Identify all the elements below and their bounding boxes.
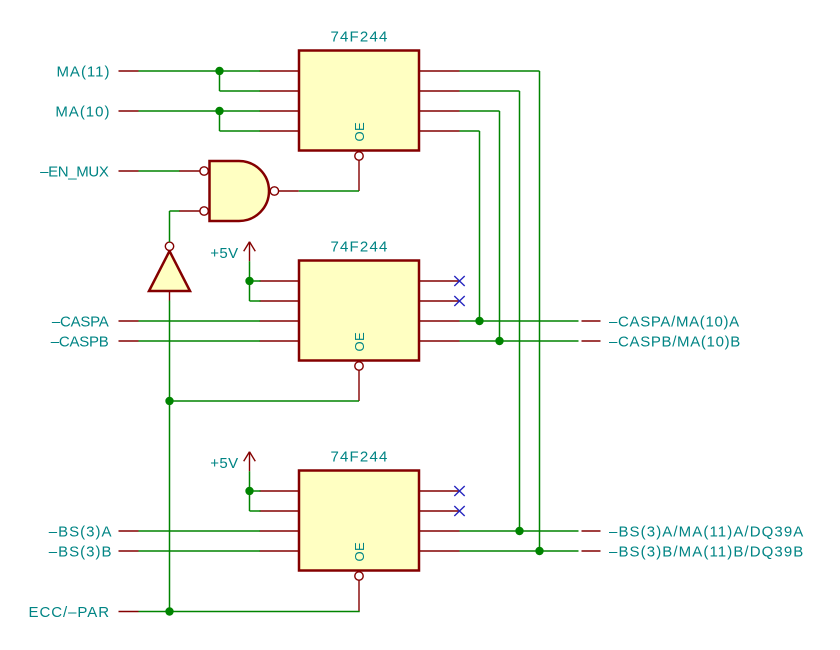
svg-text:74F244: 74F244 (330, 29, 388, 46)
label stub for -CASPA/MA(10)A (582, 320, 601, 322)
wire -CASPA to IC U2 pin3 (139, 320, 261, 322)
wire IC U1 pin7 horizontal (460, 110, 500, 112)
label stub for -CASPB/MA(10)B (582, 340, 601, 342)
wire +5V #1 down to junction (249, 261, 251, 281)
IC U3 right pin 5 (419, 490, 460, 492)
IC U2 right pin 5 (419, 280, 460, 282)
buffer IC U3 74F244 body (299, 471, 419, 571)
junction MA(11) node (215, 67, 223, 75)
label stub for MA(10) (119, 110, 139, 112)
wire -CASPB/MA(10)B output (460, 340, 579, 342)
wire +5V #2 node down (249, 491, 251, 511)
IC U3 OE pin inverting bubble (355, 572, 363, 580)
IC U3 left pin 4 (260, 550, 300, 552)
IC U1 left pin 4 (260, 130, 300, 132)
IC U3 OE pin stub (358, 580, 360, 611)
nand U4 input B pin stub (179, 210, 200, 212)
wire +5V node to IC U2 pin1 (250, 280, 261, 282)
IC U1 right pin 6 (419, 90, 460, 92)
junction +5V #1 node (245, 277, 253, 285)
IC U3 right pin 7 (419, 530, 460, 532)
svg-text:MA(11): MA(11) (56, 64, 110, 81)
label stub for -CASPB (119, 340, 139, 342)
no-connect X on IC U2 pin5 (454, 276, 464, 286)
label stub for -BS(3)A/MA(11)A/DQ39A (582, 530, 601, 532)
svg-text:OE: OE (352, 542, 367, 562)
junction -CASPB/MA(10)B node (495, 337, 503, 345)
junction inverter bus / U2 OE (165, 397, 173, 405)
wire -BS(3)A/MA(11)A/DQ39A output (460, 530, 579, 532)
svg-text:+5V: +5V (210, 455, 238, 472)
wire nand output to IC U1 OE (299, 190, 359, 192)
label stub for -BS(3)B (119, 550, 139, 552)
IC U3 left pin 2 (260, 510, 300, 512)
wire ECC/-PAR to IC U3 OE (139, 611, 360, 613)
wire MA(10) branch to IC U1 pin4 (220, 130, 261, 132)
IC U1 OE pin inverting bubble (355, 152, 363, 160)
IC U1 OE pin stub (358, 160, 360, 191)
wire +5V node down (249, 281, 251, 301)
junction MA(10) node (215, 107, 223, 115)
wire IC U1 pin8 vertical to -CASPA net (479, 131, 481, 321)
+5V power symbol #1 arrow (244, 242, 256, 261)
svg-text:–CASPB: –CASPB (51, 334, 109, 351)
label stub for -EN_MUX (119, 170, 139, 172)
label stub for ECC/-PAR (119, 611, 139, 613)
IC U2 OE pin inverting bubble (355, 362, 363, 370)
svg-text:–CASPA: –CASPA (52, 314, 109, 331)
wire IC U2 OE horizontal (170, 400, 360, 402)
svg-text:74F244: 74F244 (330, 239, 388, 256)
wire inverter output bus vertical (169, 301, 171, 612)
no-connect X on IC U2 pin6 (454, 296, 464, 306)
junction +5V #2 node (245, 487, 253, 495)
svg-text:OE: OE (352, 332, 367, 352)
wire MA(11) to IC U1 pin1 (139, 70, 261, 72)
wire MA(11) branch to IC U1 pin2 (220, 90, 261, 92)
IC U2 left pin 1 (260, 280, 300, 282)
svg-text:MA(10): MA(10) (55, 104, 110, 121)
IC U1 right pin 8 (419, 130, 460, 132)
svg-text:–BS(3)B: –BS(3)B (49, 544, 113, 561)
nand U4 input A pin stub (179, 170, 200, 172)
no-connect X on IC U3 pin5 (454, 486, 464, 496)
label stub for -BS(3)B/MA(11)B/DQ39B (582, 550, 601, 552)
IC U3 right pin 8 (419, 550, 460, 552)
svg-text:74F244: 74F244 (330, 449, 388, 466)
junction -BS(3)B/MA(11)B node (535, 547, 543, 555)
inverter U5 output inverting bubble (165, 242, 173, 250)
IC U3 left pin 1 (260, 490, 300, 492)
IC U2 left pin 4 (260, 340, 300, 342)
svg-text:–EN_MUX: –EN_MUX (40, 164, 109, 181)
label stub for -CASPA (119, 320, 139, 322)
nand U4 input B inverting bubble (200, 207, 208, 215)
wire IC U1 pin6 horizontal (460, 90, 520, 92)
IC U2 left pin 2 (260, 300, 300, 302)
label stub for -BS(3)A (119, 530, 139, 532)
IC U1 right pin 7 (419, 110, 460, 112)
wire IC U1 pin8 horizontal (460, 130, 480, 132)
svg-text:OE: OE (352, 122, 367, 142)
buffer IC U1 74F244 body (299, 51, 419, 151)
wire MA(10) to IC U1 pin3 (139, 110, 261, 112)
wire -CASPB to IC U2 pin4 (139, 340, 261, 342)
wire IC U1 pin5 vertical to -BS(3)B net (539, 71, 541, 551)
wire +5V #2 down to junction (249, 471, 251, 491)
buffer IC U2 74F244 body (299, 261, 419, 361)
svg-text:–BS(3)A/MA(11)A/DQ39A: –BS(3)A/MA(11)A/DQ39A (609, 524, 804, 541)
svg-text:–BS(3)B/MA(11)B/DQ39B: –BS(3)B/MA(11)B/DQ39B (609, 544, 804, 561)
wire IC U1 pin5 horizontal (460, 70, 540, 72)
nand U4 input A inverting bubble (200, 167, 208, 175)
wire -BS(3)B to IC U3 pin4 (139, 550, 261, 552)
wire MA(10) branch down (219, 111, 221, 131)
wire IC U1 pin7 vertical to -CASPB net (499, 111, 501, 341)
inverter U5 triangle body (149, 251, 190, 291)
svg-text:–CASPB/MA(10)B: –CASPB/MA(10)B (609, 334, 741, 351)
wire MA(11) branch down (219, 71, 221, 91)
wire nand input B down to inverter bubble (169, 211, 171, 242)
wire +5V node to IC U3 pin1 (250, 490, 261, 492)
IC U2 left pin 3 (260, 320, 300, 322)
junction -BS(3)A/MA(11)A node (515, 527, 523, 535)
wire to IC U2 pin2 (250, 300, 261, 302)
wire IC U1 pin6 vertical to -BS(3)A net (519, 91, 521, 531)
IC U3 left pin 3 (260, 530, 300, 532)
wire -BS(3)A to IC U3 pin3 (139, 530, 261, 532)
junction -CASPA/MA(10)A node (475, 317, 483, 325)
IC U2 right pin 6 (419, 300, 460, 302)
wire -EN_MUX to nand input A (139, 170, 180, 172)
IC U1 right pin 5 (419, 70, 460, 72)
wire -CASPA/MA(10)A output (460, 320, 579, 322)
label stub for MA(11) (119, 70, 139, 72)
svg-text:+5V: +5V (210, 245, 238, 262)
IC U1 left pin 1 (260, 70, 300, 72)
svg-text:–CASPA/MA(10)A: –CASPA/MA(10)A (609, 314, 740, 331)
+5V power symbol #2 arrow (244, 452, 256, 471)
svg-text:ECC/–PAR: ECC/–PAR (28, 604, 110, 621)
wire to IC U3 pin2 (250, 510, 261, 512)
inverter U5 input pin stub (169, 291, 171, 301)
junction ECC/-PAR / inverter bus (165, 607, 173, 615)
nand U4 output pin stub (279, 190, 299, 192)
IC U2 right pin 8 (419, 340, 460, 342)
wire -BS(3)B/MA(11)B/DQ39B output (460, 550, 579, 552)
svg-text:–BS(3)A: –BS(3)A (49, 524, 113, 541)
IC U3 right pin 6 (419, 510, 460, 512)
nand U4 output inverting bubble (270, 187, 278, 195)
IC U1 left pin 2 (260, 90, 300, 92)
wire nand input B horizontal (170, 210, 180, 212)
nand gate U4 body (210, 161, 270, 221)
IC U1 left pin 3 (260, 110, 300, 112)
IC U2 right pin 7 (419, 320, 460, 322)
IC U2 OE pin stub (358, 370, 360, 401)
no-connect X on IC U3 pin6 (454, 506, 464, 516)
